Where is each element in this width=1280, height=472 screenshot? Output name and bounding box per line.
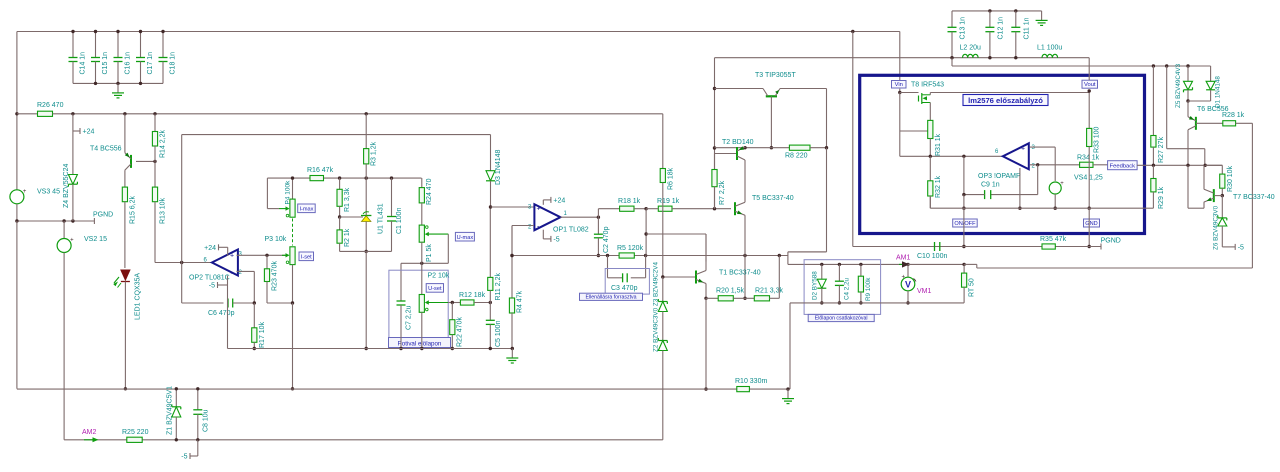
resistor R15 6,2k (122, 187, 127, 202)
svg-text:R13 10k: R13 10k (160, 197, 167, 224)
svg-text:-5: -5 (1238, 244, 1244, 251)
svg-text:C2 470p: C2 470p (603, 226, 610, 253)
svg-text:U-max: U-max (457, 235, 474, 241)
resistor R9 100k (859, 263, 862, 266)
svg-text:R32 1k: R32 1k (935, 175, 942, 198)
resistor R2 1k (339, 217, 341, 230)
wire cap bank top bus right (952, 10, 1042, 12)
capacitor C16 (117, 32, 119, 58)
svg-text:U-set: U-set (428, 286, 442, 292)
zener Z5 BZV49C4V3 (1187, 66, 1189, 81)
annotation box Elolapon (804, 260, 881, 315)
svg-text:LED1 CQX35A: LED1 CQX35A (135, 273, 142, 320)
resistor R4 47k (511, 226, 513, 298)
annotation box C3 (605, 269, 649, 295)
svg-text:R2 1k: R2 1k (344, 228, 351, 247)
svg-text:I-max: I-max (299, 207, 313, 213)
ground cap bank (117, 83, 119, 93)
led LED1 CQX35A (121, 270, 130, 280)
svg-text:+24: +24 (553, 197, 565, 204)
shunt regulator U1 TL431 (365, 178, 367, 215)
resistor R21 3,3k (754, 296, 769, 301)
resistor R10 330m (737, 387, 750, 392)
ground top right (1041, 11, 1043, 21)
wire +24 rail (73, 113, 663, 115)
wire R30 feed (1205, 164, 1222, 166)
resistor R16 47k (310, 176, 324, 181)
svg-text:C5 100n: C5 100n (495, 320, 502, 347)
svg-text:Feedback: Feedback (1110, 164, 1136, 170)
resistor R8 220 (789, 145, 810, 150)
diode D2 BY588 (820, 263, 823, 266)
wire feedback riser x182 (181, 135, 183, 263)
svg-text:+: + (537, 206, 541, 213)
svg-text:R33 100: R33 100 (1094, 126, 1101, 153)
svg-text:lm2576 előszabályzó: lm2576 előszabályzó (968, 96, 1043, 105)
resistor R32 1k (929, 156, 931, 181)
wire OP1 output (560, 216, 598, 218)
transistor T1 BC337-40 (663, 276, 696, 278)
power tick PGND box (1100, 244, 1102, 250)
svg-text:V: V (905, 280, 911, 290)
svg-text:GND: GND (1085, 221, 1097, 227)
svg-text:R18 1k: R18 1k (618, 198, 641, 205)
svg-text:R17 10k: R17 10k (259, 321, 266, 348)
wire OP2 output row (155, 262, 212, 264)
wire LED1 to bottom bus (124, 282, 126, 389)
potentiometer P4 100k (292, 178, 294, 199)
svg-text:C11 1n: C11 1n (1023, 17, 1030, 39)
wire T4 base junction (136, 160, 155, 162)
svg-text:R7 2,2k: R7 2,2k (719, 180, 726, 205)
svg-text:R20 1,5k: R20 1,5k (716, 288, 745, 295)
svg-text:R24 470: R24 470 (426, 178, 433, 205)
resistor R14 2,2k (154, 114, 156, 132)
diode D1 1N4148 (1210, 66, 1212, 81)
svg-text:C14 1n: C14 1n (80, 52, 87, 75)
voltage source VS4 1,25 (1049, 182, 1061, 194)
wire D3 junction to OP1 pin3 (491, 206, 535, 208)
svg-text:R26 470: R26 470 (37, 102, 64, 109)
svg-text:+: + (23, 189, 27, 195)
svg-text:C7 2,2u: C7 2,2u (406, 305, 413, 330)
svg-text:OP2 TL081C: OP2 TL081C (189, 275, 230, 282)
svg-text:Előlapon csatlakozóval: Előlapon csatlakozóval (815, 316, 868, 322)
ground bus mid (228, 348, 513, 350)
wire P4 mechanical link dashed (292, 219, 294, 246)
wire T1 emitter down (705, 284, 707, 299)
svg-text:Z1 BZV49C5V1: Z1 BZV49C5V1 (167, 386, 174, 435)
svg-text:R8 220: R8 220 (785, 153, 808, 160)
svg-text:R29 1k: R29 1k (1158, 186, 1165, 209)
wire T7 collector up (1203, 165, 1205, 189)
wire U1 bottom row (340, 250, 392, 252)
label I-set (299, 252, 314, 261)
svg-text:+24: +24 (83, 129, 95, 136)
zener Z3 BZV49C2V4 (662, 277, 664, 302)
wire T5 emitter to R20 junction (744, 256, 746, 299)
wire R28 right column down (1251, 123, 1253, 268)
wire output run to right (964, 263, 977, 265)
resistor R28 1k (1223, 121, 1236, 126)
wire T6 collector to T7 emitter (1187, 165, 1189, 208)
wire C9 loop (1037, 165, 1039, 195)
resistor R27 27k (1152, 66, 1154, 136)
svg-text:C3 470p: C3 470p (611, 285, 638, 292)
capacitor C5 100n (489, 303, 491, 321)
capacitor C4 2,2u (838, 263, 841, 266)
svg-text:T4 BC556: T4 BC556 (90, 146, 122, 153)
wire T1 collector feed (645, 209, 647, 256)
svg-text:ON/OFF: ON/OFF (954, 221, 976, 227)
resistor R7 2,2k (714, 154, 716, 170)
resistor R30 10k (1220, 174, 1225, 188)
ground mid (511, 349, 513, 359)
wire OP3 output row (900, 155, 1003, 157)
node P3 bottom junction (292, 265, 294, 303)
resistor R31 1k (928, 120, 933, 138)
wire -5 rail bottom (64, 439, 663, 441)
svg-text:AM1: AM1 (896, 255, 911, 262)
svg-text:R10 330m: R10 330m (735, 378, 767, 385)
svg-text:R34 1k: R34 1k (1077, 155, 1100, 162)
power tick -5 OP1 (542, 230, 544, 239)
resistor R11 2,2k (489, 207, 491, 277)
svg-text:R11 2,2k: R11 2,2k (495, 273, 502, 301)
wire OP3 V- stub (1019, 168, 1021, 208)
svg-text:OP3 !OPAMP: OP3 !OPAMP (978, 173, 1021, 180)
wire T4 collector down (124, 170, 126, 187)
resistor R12 18k (460, 300, 474, 305)
transistor T2 BD140 (715, 153, 738, 155)
power tick -5 right (1222, 246, 1235, 248)
box lm2576 outline (860, 75, 1145, 233)
wire T6 base to R28 (1196, 122, 1223, 124)
wire mid column to T7 collector bus (1166, 66, 1168, 149)
svg-text:L1 100u: L1 100u (1037, 45, 1062, 52)
resistor R1 3,3k (339, 178, 341, 189)
svg-text:D3 1N4148: D3 1N4148 (495, 149, 502, 185)
transistor T4 BC556 (124, 114, 126, 153)
transistor T6 BC556 (1187, 101, 1189, 117)
node bottom bus right + ground (786, 387, 789, 390)
wire T3 base down (770, 96, 772, 147)
wire Vin gate branch (899, 93, 901, 157)
power tick -5 OP2 (218, 284, 228, 286)
wire T2 collector to T5 collector (744, 160, 746, 202)
wire T7 emitter corner (1203, 202, 1205, 208)
wire T1 collector (705, 234, 707, 271)
capacitor C3 470p (622, 273, 624, 282)
svg-text:+24: +24 (204, 245, 216, 252)
voltage source VS2 15 (63, 221, 65, 239)
wire OP2 compensation branch down (181, 263, 183, 304)
svg-text:R1 3,3k: R1 3,3k (344, 187, 351, 212)
wire U1 column to ground bus (365, 251, 367, 348)
svg-text:T3 TIP3055T: T3 TIP3055T (755, 72, 796, 79)
op-amp OP3 !OPAMP (1003, 143, 1029, 169)
svg-text:C15 1n: C15 1n (102, 52, 109, 75)
resistor R5 120k (619, 253, 634, 258)
resistor R20 1,5k (706, 297, 718, 299)
bottom bus (17, 388, 788, 390)
wire left vertical input (16, 32, 18, 190)
wire T3 collector run (715, 88, 764, 90)
resistor R34 1k (1080, 162, 1093, 167)
wire column x714.5 (714, 58, 716, 209)
svg-text:R31 1k: R31 1k (935, 133, 942, 156)
wire OP2 pin3 row (237, 254, 286, 256)
svg-text:D1 1N4148: D1 1N4148 (1215, 76, 1222, 108)
svg-text:C1 100n: C1 100n (396, 207, 403, 234)
svg-text:VS4 1,25: VS4 1,25 (1074, 175, 1103, 182)
svg-text:+: + (902, 275, 906, 281)
svg-text:P2 10k: P2 10k (428, 273, 450, 280)
svg-text:T8 IRF543: T8 IRF543 (911, 81, 944, 88)
wire P1 wiper loop (447, 234, 449, 263)
svg-text:C17 1n: C17 1n (147, 52, 154, 75)
capacitor C11 1n (1015, 11, 1017, 27)
wire R19 to T5 base (672, 208, 731, 210)
wire base rail y148 (715, 147, 790, 149)
wire upper feedback rail y134.6 (182, 134, 491, 136)
svg-text:Z6 BZV49C3V0: Z6 BZV49C3V0 (1213, 205, 1220, 250)
label U-set (426, 284, 443, 293)
transistor T7 BC337-40 (1213, 189, 1215, 202)
zener Z2 BZV49C3V0 (662, 312, 664, 341)
wire R21 up to bus (778, 256, 780, 299)
zener Z1 BZV49C5V1 (175, 389, 177, 407)
potentiometer P1 5k (419, 225, 424, 242)
svg-text:U1 TL431: U1 TL431 (378, 203, 385, 234)
svg-text:P4 100k: P4 100k (285, 180, 292, 205)
svg-text:Ellenállásra forrasztva: Ellenállásra forrasztva (585, 294, 636, 300)
wire VS4 down (1054, 194, 1056, 208)
svg-text:R27 27k: R27 27k (1158, 136, 1165, 163)
wire T3 emitter run to R8 column (780, 88, 827, 90)
svg-text:R6 18k: R6 18k (667, 167, 674, 190)
potentiometer P2 10k (421, 263, 423, 294)
svg-text:-5: -5 (181, 454, 187, 461)
svg-text:P1 5k: P1 5k (426, 244, 433, 262)
svg-text:C6 470p: C6 470p (208, 310, 235, 317)
power tick PGND (93, 218, 95, 224)
resistor R33 100 (1088, 91, 1090, 128)
capacitor C12 1n (989, 11, 991, 27)
resistor R29 1k (1152, 165, 1154, 178)
svg-text:AM2: AM2 (82, 429, 97, 436)
wire U-set column to C7 (400, 263, 402, 301)
capacitor C13 1n (951, 11, 953, 27)
svg-text:VS2 15: VS2 15 (84, 236, 107, 243)
ammeter arrow AM1 (899, 263, 905, 265)
svg-text:D2 BY588: D2 BY588 (812, 271, 819, 300)
wire R8 column down to Vout sense (826, 148, 828, 252)
resistor R19 1k (658, 206, 672, 211)
resistor R26 470 (15, 112, 18, 115)
svg-text:C12 1n: C12 1n (997, 17, 1004, 40)
wire T5 emitter down (744, 215, 746, 255)
svg-text:+: + (1021, 146, 1025, 153)
label GND (1084, 219, 1100, 227)
wire top rail left (17, 31, 900, 33)
svg-text:-5: -5 (209, 283, 215, 290)
op-amp OP2 TL081C (212, 250, 238, 276)
label Vin (892, 81, 907, 89)
wire feedback bus right (1204, 164, 1207, 167)
wire T1 emitter column to bottom bus (705, 298, 707, 389)
svg-text:PGND: PGND (1101, 238, 1121, 245)
wire L rail top (715, 57, 1090, 59)
capacitor C15 (95, 32, 97, 58)
svg-text:C16 1n: C16 1n (125, 52, 132, 75)
resistor R22 470k (451, 303, 453, 320)
capacitor C6 470p (227, 299, 229, 308)
svg-text:T5 BC337-40: T5 BC337-40 (752, 195, 794, 202)
label Ellenallasra forrasztva (580, 293, 643, 300)
voltage source VS3 45 (10, 190, 24, 204)
transistor T3 TIP3055T (rotated, base down) (766, 95, 777, 97)
svg-text:L2 20u: L2 20u (960, 45, 982, 52)
wire VS3 to PGND bus (16, 204, 18, 221)
wire P2 wiper to R12 (448, 302, 460, 304)
svg-text:P3 10k: P3 10k (265, 236, 287, 243)
power tick +24 OP2 (227, 247, 229, 256)
wire Feedback to right bus (1137, 164, 1222, 166)
potentiometer P3 10k (290, 247, 295, 265)
wire T8 drain rail to Vout (930, 92, 1089, 94)
wire GND column (1088, 208, 1090, 246)
wire T2 emitter up (744, 146, 746, 149)
inductor L1 100u (1042, 54, 1058, 57)
label Feedback (1109, 164, 1137, 166)
svg-text:Vin: Vin (895, 82, 903, 88)
label Vout (1082, 80, 1098, 88)
svg-text:Potival elölapon: Potival elölapon (398, 341, 442, 348)
wire C3 parallel loop (607, 256, 609, 278)
wire T8 source down (929, 103, 931, 121)
wire R16 row / P4 top (267, 177, 421, 179)
wire D2 box bottom rail (790, 302, 964, 304)
wire OP3 pin2 junction (1030, 164, 1080, 166)
svg-text:C9 1n: C9 1n (981, 182, 1000, 189)
svg-text:R23 470k: R23 470k (271, 261, 278, 291)
ammeter arrow AM2 (84, 439, 97, 441)
power tick +24 OP1 (542, 200, 544, 205)
resistor R18 1k (620, 206, 634, 211)
svg-text:R15 6,2k: R15 6,2k (130, 195, 137, 224)
svg-text:R30 10k: R30 10k (1227, 165, 1234, 192)
wire box bottom rail to PGND (853, 246, 1101, 248)
capacitor C18 (162, 32, 164, 58)
svg-text:RT 50: RT 50 (969, 278, 976, 297)
annotation box Potival elolapon (389, 270, 448, 344)
svg-text:C4 2,2u: C4 2,2u (843, 277, 850, 300)
svg-text:OP1 TL082: OP1 TL082 (553, 227, 589, 234)
resistor R35 47k (1042, 244, 1055, 249)
label ON/OFF (953, 219, 978, 227)
wire VS2 down to -5 rail (63, 253, 65, 440)
svg-text:R4 47k: R4 47k (517, 290, 524, 313)
wire top rail corner to Vin (899, 32, 901, 81)
resistor R6 18k (662, 114, 664, 169)
zener Z4 BZV55C24 (72, 131, 74, 175)
node PGND bus left (17, 220, 95, 222)
svg-text:R12 18k: R12 18k (459, 292, 486, 299)
svg-text:T2 BD140: T2 BD140 (722, 139, 754, 146)
wire C9 left riser (963, 156, 965, 194)
svg-text:R16 47k: R16 47k (307, 167, 334, 174)
wire OP3 pin3 to VS4 (1030, 146, 1056, 148)
resistor R25 220 (127, 437, 142, 442)
wire OP2 pin2 to C6 (237, 270, 255, 272)
power tick +24 at Z4 (72, 114, 74, 131)
wire P4 wiper feed (266, 178, 268, 209)
resistor R24 470 (421, 178, 423, 188)
capacitor C17 (140, 32, 142, 58)
resistor R17 10k (253, 303, 255, 328)
svg-text:R5 120k: R5 120k (617, 245, 644, 252)
wire R13 down to OP2 output row (154, 202, 156, 263)
svg-text:Vout: Vout (1084, 82, 1096, 88)
svg-text:R22 470k: R22 470k (457, 317, 464, 347)
svg-text:C10 100n: C10 100n (917, 253, 947, 260)
svg-text:C8 10u: C8 10u (202, 409, 209, 432)
mosfet T8 IRF543 (900, 92, 919, 94)
svg-text:VS3 45: VS3 45 (37, 189, 60, 196)
bus y255.5 (512, 255, 788, 257)
wire left vertical to bottom bus (16, 221, 18, 389)
wire cap bank bottom bus (73, 82, 163, 84)
svg-text:+: + (70, 238, 74, 244)
wire Vin down (899, 89, 901, 93)
capacitor C2 470p (597, 217, 599, 234)
inductor L2 20u (963, 54, 979, 57)
resistor R3 1,2k (365, 114, 367, 149)
capacitor C8 10u (197, 389, 199, 410)
svg-text:R9 100k: R9 100k (865, 277, 872, 301)
wire T6 collector down (1187, 130, 1189, 166)
resistor R23 470k (266, 255, 268, 268)
transistor T5 BC337-40 (734, 202, 736, 215)
internal ground rail (930, 207, 1144, 209)
svg-text:R3 1,2k: R3 1,2k (371, 141, 378, 166)
wire U1 ref to R1/R2 junction (340, 216, 363, 218)
wire ON/OFF column (963, 208, 965, 246)
svg-text:-5: -5 (553, 236, 559, 243)
op-amp OP1 TL082 (534, 204, 560, 230)
wire T7 base stub (1214, 195, 1223, 197)
svg-text:R35 47k: R35 47k (1040, 236, 1067, 243)
capacitor C14 (72, 32, 74, 58)
wire R15 to LED1 (124, 202, 126, 268)
svg-text:VM1: VM1 (917, 288, 932, 295)
wire OP2 V- to ground bus (227, 276, 229, 349)
svg-text:T7 BC337-40: T7 BC337-40 (1233, 194, 1275, 201)
svg-text:PGND: PGND (93, 212, 113, 219)
svg-text:R14 2,2k: R14 2,2k (160, 129, 167, 158)
wire Vout entry (1088, 58, 1090, 80)
capacitor C10 100n (934, 242, 936, 251)
capacitor C9 1n (984, 190, 986, 199)
svg-text:Z4 BZV55C24: Z4 BZV55C24 (63, 164, 70, 208)
diode D3 1N4148 (490, 135, 492, 171)
svg-text:+: + (1060, 181, 1064, 187)
capacitor C1 100n (391, 178, 393, 216)
resistor R13 10k (154, 161, 156, 187)
svg-text:Z2 BZV49C3V0 Z3 BZV49C2V4: Z2 BZV49C3V0 Z3 BZV49C2V4 (653, 262, 660, 352)
voltmeter VM1 (907, 264, 909, 277)
